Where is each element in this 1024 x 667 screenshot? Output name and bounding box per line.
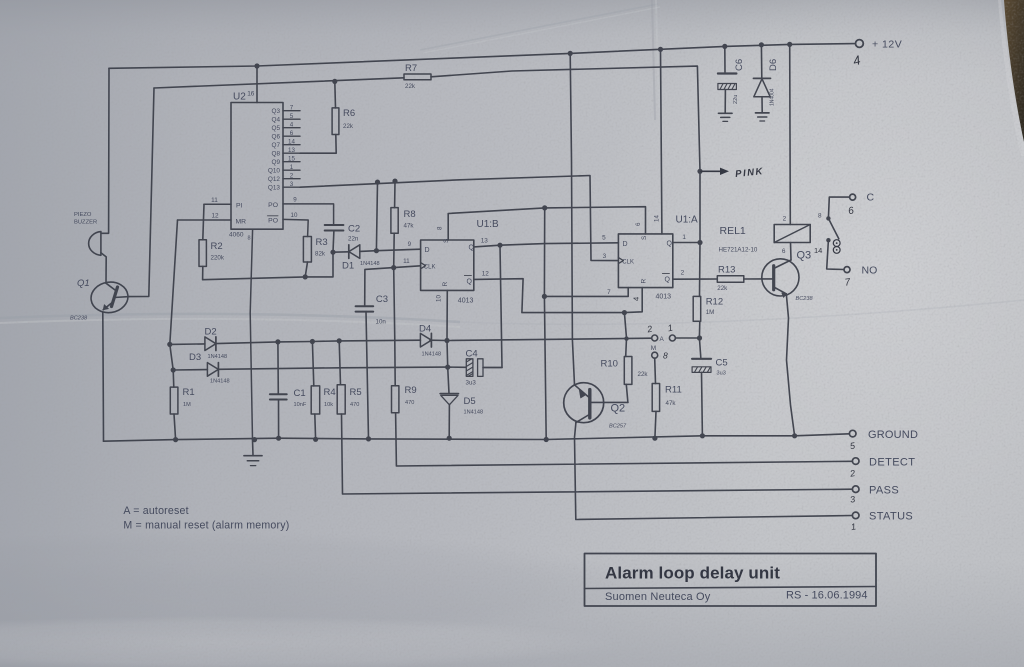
svg-text:7: 7 (607, 289, 611, 296)
svg-text:Q6: Q6 (271, 134, 280, 141)
svg-text:12: 12 (211, 213, 219, 220)
piezo buzzer symbol (89, 232, 101, 256)
resistor R12 1M (693, 296, 701, 321)
ground symbol (252, 440, 255, 456)
capacitor C3 10n (356, 305, 374, 307)
wire D5 branch (447, 341, 449, 394)
svg-text:C2: C2 (348, 224, 360, 235)
wire U1:B Q down to C4 (484, 245, 503, 367)
svg-text:3u3: 3u3 (466, 380, 477, 387)
svg-text:R: R (442, 282, 449, 287)
svg-text:RS - 16.06.1994: RS - 16.06.1994 (786, 590, 868, 602)
svg-text:R1: R1 (183, 387, 195, 398)
svg-text:Q10: Q10 (268, 168, 281, 175)
svg-text:82k: 82k (315, 251, 326, 258)
op-amp U2 4060 IC body (231, 103, 283, 230)
svg-text:6: 6 (290, 130, 294, 137)
svg-text:C3: C3 (376, 294, 388, 305)
svg-text:PO: PO (268, 202, 278, 209)
svg-text:15: 15 (288, 155, 295, 162)
diode D4 1N4148 (420, 333, 431, 347)
wire R8 top to Q13 line (394, 181, 396, 208)
svg-text:CLK: CLK (622, 259, 634, 265)
svg-text:4: 4 (290, 121, 294, 128)
wire R6 bottom to U2 Q8 (300, 135, 336, 154)
fold crease horizontal (0, 314, 460, 322)
svg-text:DETECT: DETECT (869, 456, 915, 468)
pin U1:B Q (13) wire to U1:A D (474, 243, 619, 247)
resistor R9 470 (392, 386, 399, 413)
svg-text:Q7: Q7 (271, 142, 280, 149)
terminal +12V (856, 40, 864, 48)
svg-text:NO: NO (862, 265, 878, 277)
svg-text:PIEZO: PIEZO (74, 212, 92, 218)
svg-text:22k: 22k (405, 83, 416, 90)
svg-text:22k: 22k (638, 371, 649, 378)
relay contact arm (828, 218, 838, 238)
svg-text:REL1: REL1 (720, 225, 746, 237)
svg-text:BUZZER: BUZZER (74, 220, 97, 226)
capacitor C4 3u3 electrolytic (448, 366, 466, 368)
svg-text:C6: C6 (734, 59, 745, 71)
svg-text:9: 9 (293, 196, 297, 203)
svg-text:R6: R6 (343, 108, 355, 119)
svg-text:Suomen Neuteca Oy: Suomen Neuteca Oy (605, 591, 711, 603)
svg-text:U1:A: U1:A (676, 215, 699, 226)
resistor R13 22k (717, 276, 744, 283)
svg-text:22k: 22k (343, 123, 354, 130)
title block frame (585, 554, 877, 607)
wire +12V feed down to Q2 emitter (570, 53, 574, 385)
svg-text:Q: Q (467, 279, 473, 286)
svg-text:13: 13 (481, 238, 489, 245)
resistor R6 22k (332, 108, 339, 135)
svg-text:1N4148: 1N4148 (210, 379, 230, 385)
svg-text:10: 10 (436, 295, 443, 302)
svg-text:4: 4 (632, 297, 641, 301)
wire C3 bottom to ground rail (366, 312, 369, 439)
svg-text:1N4148: 1N4148 (208, 354, 228, 360)
terminal M (manual reset) (652, 335, 658, 341)
svg-text:BC238: BC238 (70, 316, 88, 322)
node PINK test point arrow (697, 169, 702, 174)
svg-text:10n: 10n (376, 319, 387, 326)
wire U2 Q13 to U1:A CLK (300, 176, 618, 261)
wire S-net to U1:A S pin (545, 207, 646, 234)
terminal DETECT (852, 458, 859, 465)
resistor R3 82k (303, 237, 311, 263)
wire MR line down left column (170, 220, 178, 387)
diode D1 1N4148 (333, 251, 349, 253)
pin U1:A Qbar (2) wire to R13 (673, 278, 718, 280)
capacitor C5 3u3 electrolytic (699, 338, 700, 358)
pin U1:B R (10) wire down (446, 290, 448, 340)
transistor Q3 BC238 (762, 259, 799, 296)
svg-text:R7: R7 (405, 63, 417, 74)
node ground rail dots (173, 437, 178, 442)
wire +12V top rail (109, 44, 855, 69)
svg-text:3: 3 (290, 181, 294, 188)
svg-text:Q1: Q1 (77, 278, 90, 289)
svg-text:C5: C5 (716, 358, 728, 369)
svg-text:Q: Q (665, 277, 671, 284)
wire R8 bottom to CLK line and down to R9 (394, 233, 396, 386)
wire D3 output line (218, 367, 447, 369)
diode D6 1N4004 (760, 45, 762, 78)
svg-text:C: C (867, 192, 875, 204)
capacitor C1 10nF (277, 342, 279, 394)
svg-text:22n: 22n (348, 236, 359, 243)
svg-text:R9: R9 (405, 385, 417, 396)
svg-text:12: 12 (482, 271, 490, 278)
svg-text:MR: MR (236, 218, 247, 225)
ground for C6 (719, 112, 733, 114)
svg-text:8: 8 (818, 213, 822, 220)
wire R3 bottom stem (305, 262, 307, 277)
relay contact C (850, 194, 856, 200)
terminal A (autoreset) (669, 335, 675, 341)
svg-text:470: 470 (350, 402, 359, 408)
fold crease vertical (652, 0, 655, 120)
svg-text:1: 1 (682, 234, 686, 241)
svg-text:C1: C1 (294, 388, 306, 399)
wire S-net vertical down to ground (544, 208, 546, 440)
resistor R4 10k (312, 342, 313, 386)
svg-text:R11: R11 (665, 385, 682, 396)
svg-text:Q3: Q3 (797, 250, 812, 262)
svg-text:R10: R10 (601, 359, 618, 370)
svg-text:6: 6 (635, 222, 642, 226)
terminal STATUS (852, 512, 859, 519)
svg-text:22u: 22u (733, 95, 739, 104)
svg-text:10k: 10k (324, 402, 333, 408)
wire R13 to Q3 base (744, 278, 762, 280)
svg-text:Q: Q (469, 245, 475, 252)
svg-text:5: 5 (602, 235, 606, 242)
svg-text:M = manual reset (alarm memory: M = manual reset (alarm memory) (123, 520, 289, 532)
svg-text:8: 8 (437, 226, 444, 230)
svg-text:R5: R5 (350, 387, 362, 398)
svg-text:10: 10 (291, 212, 298, 219)
wire Q1 emitter down to ground rail (102, 313, 105, 442)
wire D5 to ground rail (448, 404, 450, 438)
svg-text:D: D (425, 247, 430, 254)
resistor R2 220k (199, 240, 206, 267)
wire Q3 emitter to ground rail (786, 294, 794, 436)
wire C2 bottom to D1 node (332, 231, 335, 253)
svg-text:220k: 220k (211, 255, 225, 262)
node +12V rail junction dots (254, 63, 259, 68)
svg-text:+ 12V: + 12V (872, 39, 902, 51)
svg-text:U1:B: U1:B (477, 219, 500, 230)
svg-text:Q8: Q8 (271, 151, 280, 158)
handwritten circled dots (833, 240, 840, 247)
wire R10 bottom to Q2 base (626, 384, 628, 402)
svg-text:S: S (641, 235, 648, 240)
wire 8-terminal to R11 (654, 358, 657, 383)
wire D2 output line (reset line) (216, 340, 421, 343)
svg-text:R: R (641, 279, 648, 284)
wire U2 pin8 VSS to ground rail (250, 229, 252, 439)
svg-text:13: 13 (288, 147, 295, 154)
svg-text:7: 7 (290, 104, 294, 111)
svg-text:Q12: Q12 (268, 176, 281, 183)
svg-text:HE721A12-10: HE721A12-10 (719, 247, 758, 254)
terminal 8 below M (652, 352, 658, 358)
svg-text:5: 5 (290, 113, 294, 120)
pin U1:B CLK (11) wire (365, 266, 421, 306)
svg-text:Q2: Q2 (611, 403, 626, 415)
capacitor C6 22u electrolytic (724, 46, 726, 72)
svg-text:BC257: BC257 (609, 424, 627, 430)
wire Q2 collector to STATUS line (575, 423, 853, 520)
svg-text:1: 1 (290, 164, 294, 171)
svg-text:1N4148: 1N4148 (464, 410, 484, 416)
svg-text:2: 2 (290, 172, 294, 179)
svg-text:D6: D6 (768, 59, 779, 71)
diode D3 1N4148 (173, 369, 207, 371)
svg-text:8: 8 (248, 236, 251, 242)
svg-text:47k: 47k (666, 400, 677, 407)
diode D2 1N4148 (170, 343, 205, 346)
resistor R10 22k (624, 313, 626, 357)
svg-text:2: 2 (681, 270, 685, 277)
svg-text:1M: 1M (183, 402, 191, 408)
wire Q13 branch down to D line (376, 182, 377, 251)
wire R6 top to rail B (334, 81, 337, 108)
fold crease diagonal (420, 4, 658, 50)
op-amp U1:B 4013 flip-flop body (421, 240, 474, 290)
resistor R11 47k (652, 384, 659, 412)
svg-text:Q3: Q3 (271, 108, 280, 115)
svg-text:8: 8 (663, 351, 668, 361)
svg-text:22k: 22k (717, 285, 728, 292)
resistor R8 47k (391, 208, 398, 234)
svg-text:R13: R13 (718, 265, 735, 276)
svg-text:1N4148: 1N4148 (360, 261, 380, 267)
wire R12 bottom to reset line (698, 321, 700, 338)
capacitor C2 22n (325, 224, 344, 226)
svg-text:10nF: 10nF (294, 402, 307, 408)
svg-text:D5: D5 (464, 396, 476, 407)
svg-text:R3: R3 (316, 237, 328, 248)
table corner top-right (1004, 0, 1024, 142)
svg-text:2: 2 (783, 216, 787, 223)
svg-text:R8: R8 (404, 209, 416, 220)
ground for D6 (756, 112, 770, 114)
resistor R5 470 (339, 341, 340, 385)
svg-text:R12: R12 (706, 297, 723, 308)
svg-text:A = autoreset: A = autoreset (123, 505, 188, 517)
resistor R1 1M (170, 387, 178, 414)
wire U2 pin16 to rail (256, 66, 258, 103)
svg-text:Q13: Q13 (268, 185, 281, 192)
terminal GROUND (849, 430, 856, 437)
svg-text:D2: D2 (205, 327, 217, 338)
resistor R7 (404, 74, 431, 80)
svg-text:11: 11 (403, 258, 410, 265)
svg-text:Q9: Q9 (271, 159, 280, 166)
svg-text:4013: 4013 (458, 298, 474, 305)
svg-text:Q4: Q4 (271, 117, 280, 124)
diode D5 1N4148 (440, 393, 458, 395)
wire R9 bottom to DETECT line (396, 413, 853, 466)
svg-text:STATUS: STATUS (869, 511, 913, 523)
wire S-net to U1:A pin7 (544, 288, 628, 297)
op-amp U1:A 4013 flip-flop body (618, 234, 672, 288)
transistor Q2 BC257 (564, 383, 604, 423)
svg-text:A: A (660, 336, 665, 343)
svg-text:Q: Q (667, 241, 673, 248)
svg-text:BC238: BC238 (796, 296, 814, 302)
wire R2 bottom link (203, 252, 333, 280)
svg-text:Alarm loop delay unit: Alarm loop delay unit (605, 564, 780, 583)
svg-text:R4: R4 (324, 387, 336, 398)
svg-text:6: 6 (782, 248, 786, 255)
terminal PASS (852, 486, 859, 493)
svg-text:U2: U2 (233, 92, 246, 103)
svg-text:D1: D1 (342, 261, 354, 272)
svg-text:GROUND: GROUND (868, 429, 918, 441)
svg-text:14: 14 (654, 215, 661, 222)
relay contact NO (827, 240, 844, 269)
svg-text:Q5: Q5 (271, 125, 280, 132)
wire Q3 collector to REL1 (790, 243, 793, 261)
wire Q1 base up to rail B (129, 88, 154, 297)
wire buzzer drop from rail (101, 68, 109, 233)
svg-text:14: 14 (814, 246, 822, 255)
wire rail B (R7 line) (154, 78, 404, 88)
svg-text:14: 14 (288, 138, 295, 145)
wire REL1 coil to +12V rail (789, 44, 792, 224)
svg-text:470: 470 (405, 400, 414, 406)
svg-text:16: 16 (247, 91, 255, 98)
svg-text:1N4004: 1N4004 (770, 88, 776, 106)
svg-text:C4: C4 (466, 349, 478, 360)
svg-text:D: D (623, 241, 628, 248)
svg-text:PO: PO (268, 218, 278, 225)
wire U1:A pin14 to +12V rail (661, 49, 662, 234)
transistor Q1 BC238 (89, 280, 130, 315)
svg-text:4060: 4060 (229, 232, 244, 239)
svg-text:D3: D3 (189, 352, 201, 363)
pin U1:A Q (1) wire (673, 242, 700, 244)
wire A terminal to R12 node (675, 337, 699, 339)
wire D4 to reset node and on to M terminal (430, 338, 652, 340)
svg-text:47k: 47k (404, 223, 415, 230)
pin U1:B S (8) wire to S-net (448, 208, 545, 240)
svg-text:PASS: PASS (869, 484, 899, 496)
svg-text:1N4148: 1N4148 (422, 352, 442, 358)
svg-text:1M: 1M (706, 309, 715, 316)
svg-text:4013: 4013 (656, 294, 672, 301)
svg-text:M: M (651, 345, 656, 352)
svg-text:11: 11 (211, 197, 218, 204)
wire ground rail (104, 434, 850, 441)
pin U1:B Qbar (12) wire to U1:A R via R10 node (474, 279, 642, 313)
svg-text:3u3: 3u3 (717, 371, 726, 377)
svg-text:PI: PI (236, 203, 243, 210)
wire R5 bottom to PASS line (342, 414, 853, 494)
wire PI to R2 (203, 204, 204, 240)
svg-text:D4: D4 (419, 324, 431, 335)
svg-text:9: 9 (408, 241, 412, 248)
wire buzzer bottom to Q1 collector (101, 253, 106, 283)
svg-text:3: 3 (603, 253, 607, 260)
svg-text:R2: R2 (211, 241, 223, 252)
relay REL1 HE721A12-10 coil (774, 225, 810, 243)
